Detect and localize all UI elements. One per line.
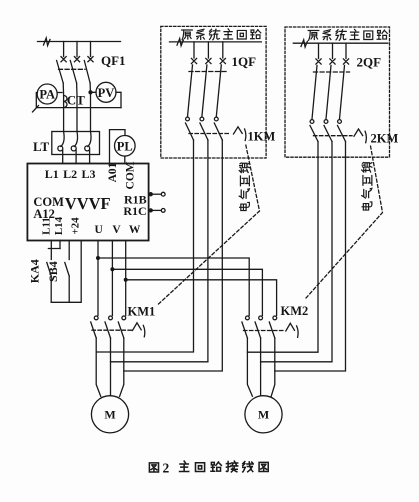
wire: 1KM output 3 rail <box>124 140 223 371</box>
svg-text:1KM: 1KM <box>248 130 276 144</box>
svg-text:L3: L3 <box>81 167 95 181</box>
box1 break mark <box>177 39 183 46</box>
circuit breaker 2QF <box>312 59 350 119</box>
pushbutton SB4 <box>65 263 69 277</box>
label L14 <box>53 216 65 235</box>
wire: phases QF1 to LT <box>63 83 90 131</box>
wire: KM1 pole3 to motor1 <box>120 338 124 396</box>
label U V W <box>95 224 141 236</box>
wire: W branch to KM2 pole 3 <box>126 280 277 316</box>
enclosure box 1 (original system) <box>161 26 266 158</box>
svg-text:KM1: KM1 <box>128 305 156 319</box>
circuit breaker 1QF <box>188 58 227 116</box>
wire: 1KM output 1 rail <box>96 140 193 352</box>
label L1 L2 L3 <box>45 167 96 181</box>
wire: box2 bus <box>293 42 388 44</box>
wire: bottom rail to +24 <box>51 241 81 303</box>
actuator mark KM2 <box>286 323 298 337</box>
wire: KM1 pole1 to motor1 <box>96 338 101 396</box>
svg-text:KA4: KA4 <box>27 259 41 283</box>
motor M2 <box>245 396 282 433</box>
label +24 <box>70 217 82 235</box>
wire: box2 phase drops <box>319 43 347 58</box>
wire: L11 stub <box>48 241 60 260</box>
label COM (top) <box>124 161 136 189</box>
label SB4 <box>46 261 60 282</box>
contactor 1KM <box>186 117 232 140</box>
voltmeter PV <box>96 82 116 102</box>
svg-text:CT: CT <box>67 93 85 108</box>
wire: U branch to KM2 pole 1 <box>98 258 249 316</box>
contactor KM1 <box>91 316 133 338</box>
svg-text:L11: L11 <box>40 217 52 235</box>
label 1KM <box>248 130 276 144</box>
wire: KA4 to rail <box>50 276 52 302</box>
wire: KM2 pole3 to motor2 <box>271 338 275 396</box>
contactor 2KM <box>310 120 352 142</box>
label 2KM <box>371 132 399 146</box>
svg-text:VVVF: VVVF <box>65 194 111 213</box>
node W branch <box>124 278 128 282</box>
terminal R1C stub <box>149 209 166 213</box>
label 原系统主回路 box2 <box>308 29 387 40</box>
interlock dashed KM1 to 1KM <box>159 144 260 305</box>
contactor KM2 <box>242 316 284 338</box>
svg-text:SB4: SB4 <box>46 261 60 282</box>
label R1B <box>124 193 147 207</box>
label KM1 <box>128 305 156 319</box>
inverter VVVF <box>27 164 148 241</box>
label VVVF <box>65 194 111 213</box>
wire: phase drops to QF1 <box>64 42 91 57</box>
svg-text:2QF: 2QF <box>357 55 382 70</box>
wire: incoming supply bus <box>38 41 121 43</box>
label 电气互锁 box1 <box>239 163 249 211</box>
ammeter PA <box>37 84 57 104</box>
interlock dashed KM2 to 2KM <box>306 146 383 298</box>
wire: 2KM output 1 rail <box>247 142 318 353</box>
wire: 2KM output 3 rail <box>275 142 346 372</box>
label R1C <box>123 204 146 218</box>
terminal R1B stub <box>149 192 166 196</box>
svg-text:M: M <box>258 408 269 422</box>
current transformer CT <box>64 96 67 108</box>
actuator mark 1KM <box>234 127 246 141</box>
label LT <box>33 139 49 154</box>
svg-text:1QF: 1QF <box>232 54 257 69</box>
node U branch <box>96 256 100 260</box>
svg-text:KM2: KM2 <box>281 304 309 318</box>
relay contact KA4 <box>47 263 51 277</box>
label A01 <box>107 162 119 182</box>
svg-text:R1C: R1C <box>123 204 146 218</box>
wire: KM2 pole1 to motor2 <box>247 338 252 396</box>
label A12 <box>33 207 55 221</box>
wire: KM2 pole2 to motor2 <box>260 338 262 396</box>
svg-text:A01: A01 <box>107 162 119 182</box>
label QF1 <box>101 53 126 68</box>
wire: L14 stub <box>59 241 61 249</box>
svg-text:PL: PL <box>117 139 133 153</box>
wire: box1 phase drops <box>194 42 223 58</box>
pilot lamp PL <box>115 136 136 157</box>
svg-text:PA: PA <box>39 88 55 102</box>
wire: W phase down <box>125 241 127 316</box>
svg-text:+24: +24 <box>70 217 82 235</box>
wire: PL to COM terminal <box>124 156 126 163</box>
label KA4 <box>27 259 41 283</box>
box2 break mark <box>301 40 307 47</box>
label 电气互锁 box2 <box>362 162 372 210</box>
circuit breaker QF1 <box>57 57 94 83</box>
motor M1 <box>91 396 128 433</box>
node V branch <box>110 267 114 271</box>
actuator mark 2KM <box>354 129 366 143</box>
wire: box1 bus <box>170 41 262 43</box>
wire: KM1 pole2 to motor1 <box>110 338 112 396</box>
label CT <box>67 93 85 108</box>
wire: SB4 stub <box>68 241 70 260</box>
label 1QF <box>232 54 257 69</box>
wire: PV connections <box>89 91 121 108</box>
caption 图2 主回路接线图 <box>149 463 158 472</box>
wire: PA connections <box>33 93 122 113</box>
svg-text:L1: L1 <box>45 167 59 181</box>
svg-text:2KM: 2KM <box>371 132 399 146</box>
wire: V phase down <box>111 241 113 316</box>
svg-text:COM: COM <box>124 161 136 189</box>
label COM (left) <box>33 195 64 209</box>
svg-text:W: W <box>129 224 141 236</box>
wire: SB4 to rail <box>68 276 70 302</box>
wire: V branch to KM2 pole 2 <box>112 269 262 315</box>
svg-text:V: V <box>112 224 121 236</box>
actuator mark KM1 <box>133 323 145 337</box>
svg-text:L14: L14 <box>53 216 65 235</box>
wire: A01 loop to PL <box>110 130 126 164</box>
wire: U phase down <box>97 241 99 316</box>
supply break mark <box>44 38 51 46</box>
enclosure box 2 (original system) <box>285 27 390 157</box>
wire: 1KM output 2 rail <box>111 140 208 362</box>
svg-text:U: U <box>95 224 104 236</box>
label L11 <box>40 217 52 235</box>
label 原系统主回路 box1 <box>182 29 261 40</box>
svg-text:QF1: QF1 <box>101 53 126 68</box>
svg-text:PV: PV <box>98 86 115 100</box>
label KM2 <box>281 304 309 318</box>
svg-text:L2: L2 <box>63 167 77 181</box>
svg-text:M: M <box>104 408 115 422</box>
reactor LT <box>52 132 100 164</box>
label 2QF <box>357 55 382 70</box>
wire: 2KM output 2 rail <box>261 142 332 362</box>
svg-text:2: 2 <box>163 461 170 476</box>
svg-text:LT: LT <box>33 139 49 154</box>
